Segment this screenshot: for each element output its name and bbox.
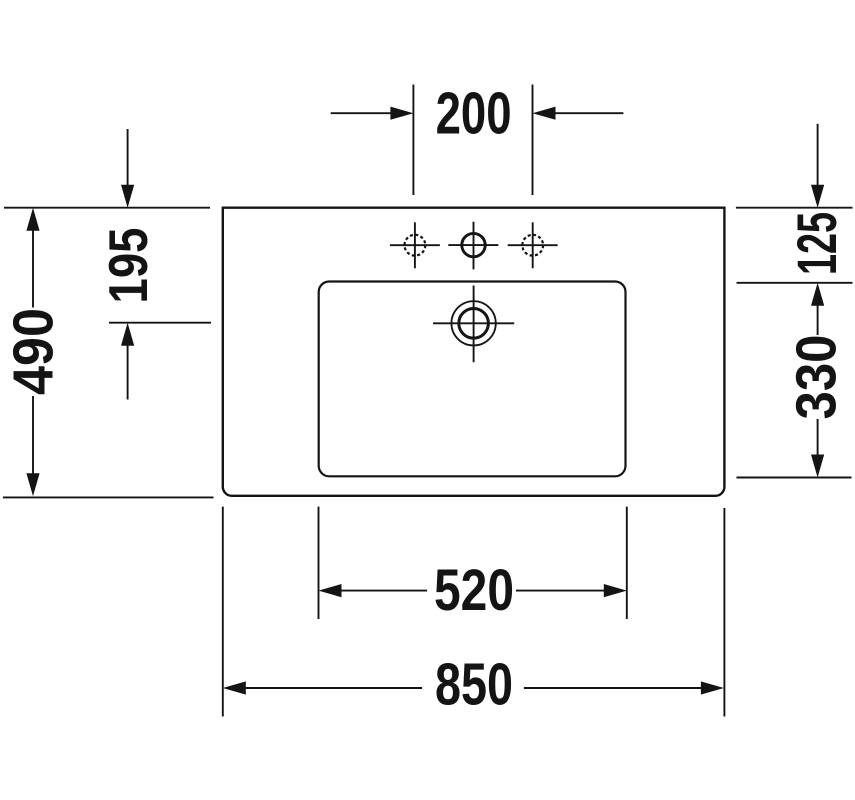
dimension 195 datum line xyxy=(109,322,211,324)
dimension 200 leader+arrow right xyxy=(533,107,624,120)
dimension 330 line with arrows xyxy=(811,283,824,478)
dimension 195 upper arrow xyxy=(121,129,134,208)
dimension 850 label xyxy=(435,652,513,718)
svg-text:200: 200 xyxy=(436,80,512,146)
dimension 125 upper arrow xyxy=(811,124,824,208)
bottom extension line bowl left xyxy=(318,507,320,619)
svg-text:125: 125 xyxy=(785,212,848,275)
svg-text:520: 520 xyxy=(434,558,514,623)
dimension 330 label xyxy=(785,335,849,420)
right extension line top edge xyxy=(736,207,853,209)
top edge extension line left xyxy=(4,207,210,209)
dimension 200 leader+arrow left xyxy=(331,107,414,120)
dimension 200 label xyxy=(436,80,512,146)
dimension 125 label xyxy=(785,212,848,275)
svg-text:490: 490 xyxy=(2,308,66,395)
bottom extension line bowl right xyxy=(626,507,628,619)
bottom edge extension line left xyxy=(3,496,214,498)
dimension 520 line with arrows xyxy=(319,584,627,597)
basin inner bowl outline xyxy=(319,282,626,477)
dimension 490 line with arrows xyxy=(26,208,39,497)
svg-text:330: 330 xyxy=(785,335,849,420)
faucet hole center (solid) xyxy=(448,222,498,270)
bottom extension line outer right xyxy=(723,508,725,717)
svg-text:195: 195 xyxy=(97,228,159,304)
dimension 200 extension line right xyxy=(532,85,534,196)
faucet hole right (dashed) xyxy=(508,222,558,268)
dimension 520 label xyxy=(434,558,514,623)
right extension line bowl top xyxy=(737,282,853,284)
dimension 490 label xyxy=(2,308,66,395)
dimension 850 line with arrows xyxy=(223,681,724,694)
dimension 195 lower arrow xyxy=(121,323,134,400)
right extension line bowl bottom xyxy=(737,477,852,479)
bottom extension line outer left xyxy=(222,507,224,717)
drain hole xyxy=(433,286,514,363)
dimension 200 extension line left xyxy=(412,85,414,196)
dimension 195 label xyxy=(97,228,159,304)
basin outer outline xyxy=(223,208,725,496)
svg-text:850: 850 xyxy=(435,652,513,718)
faucet hole left (dashed) xyxy=(390,222,440,268)
